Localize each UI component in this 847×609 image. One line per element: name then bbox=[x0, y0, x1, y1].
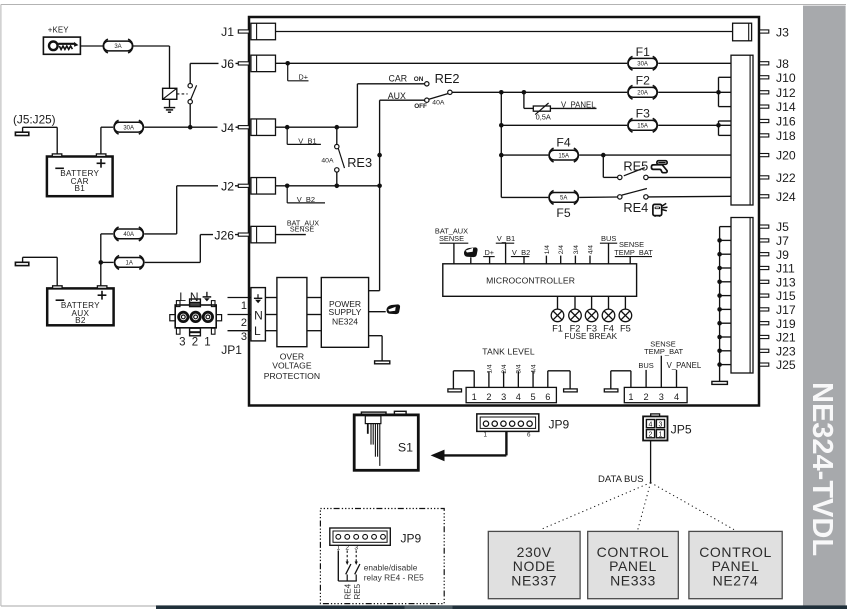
svg-text:NE274: NE274 bbox=[713, 573, 759, 589]
label FUSE BREAK bbox=[564, 332, 617, 341]
svg-text:FUSE BREAK: FUSE BREAK bbox=[564, 332, 617, 341]
svg-text:J21: J21 bbox=[776, 331, 796, 345]
label N bbox=[190, 290, 199, 304]
wire F4 to J20 bbox=[579, 153, 731, 158]
pin J14 bbox=[760, 100, 796, 114]
tank pin1 bent bbox=[448, 371, 474, 392]
bottom scrollbar thumb bbox=[405, 605, 453, 609]
pin J9 bbox=[717, 248, 789, 262]
svg-text:SENSE: SENSE bbox=[439, 234, 464, 243]
label J2 white-backed bbox=[221, 180, 234, 194]
AC inlet terminal block bbox=[251, 288, 266, 341]
svg-text:V_B2: V_B2 bbox=[297, 195, 315, 204]
relay dashed link bbox=[177, 93, 188, 95]
pin J16 bbox=[760, 115, 796, 129]
wire F4 to RE5 bbox=[603, 155, 617, 177]
svg-text:J26: J26 bbox=[214, 228, 234, 242]
label enable/disable bbox=[364, 563, 418, 573]
fuse 1A bbox=[115, 256, 144, 270]
fuse-break lamp F3 bbox=[585, 296, 598, 333]
svg-text:1: 1 bbox=[336, 544, 340, 551]
tank level connector bbox=[466, 387, 556, 402]
svg-text:J2: J2 bbox=[221, 180, 234, 194]
svg-text:+KEY: +KEY bbox=[48, 25, 69, 34]
wire F2 to bracket bbox=[658, 90, 731, 95]
pin J23 bbox=[717, 344, 796, 358]
svg-text:F1: F1 bbox=[552, 323, 563, 333]
fuse 3A bbox=[103, 39, 132, 53]
wire 1A to J26 bbox=[145, 227, 239, 262]
svg-text:F5: F5 bbox=[556, 206, 570, 220]
svg-text:JP5: JP5 bbox=[671, 423, 692, 437]
wire AUX bbox=[380, 99, 425, 101]
label JP9 bbox=[549, 418, 570, 432]
svg-text:V_B1: V_B1 bbox=[497, 234, 515, 243]
fuse 40A bbox=[114, 227, 143, 241]
svg-text:20A: 20A bbox=[637, 91, 648, 97]
label RE5 rotated bbox=[353, 583, 362, 599]
svg-text:MICROCONTROLLER: MICROCONTROLLER bbox=[486, 275, 575, 285]
pin J25 bbox=[717, 358, 796, 372]
label DATA BUS bbox=[598, 474, 644, 485]
over voltage protection box bbox=[277, 278, 307, 347]
svg-text:B1: B1 bbox=[74, 184, 85, 193]
pin J15 bbox=[717, 289, 796, 303]
svg-text:L: L bbox=[254, 324, 261, 338]
tank pin6 bent bbox=[548, 371, 577, 392]
svg-text:3/4: 3/4 bbox=[573, 245, 580, 254]
svg-text:J1: J1 bbox=[221, 25, 234, 39]
svg-text:J10: J10 bbox=[776, 71, 796, 85]
wire RE2 to F2 bbox=[452, 90, 627, 95]
relay RE1 coil bbox=[163, 88, 177, 99]
tank pin 3/4 bbox=[516, 364, 523, 387]
label RE4 bbox=[623, 200, 648, 215]
connector J26 bbox=[214, 226, 275, 243]
pin J21 bbox=[717, 331, 796, 345]
svg-text:5: 5 bbox=[531, 392, 536, 402]
power supply NE324 box bbox=[321, 278, 368, 348]
label 3 2 1 bbox=[179, 337, 211, 349]
svg-text:1: 1 bbox=[241, 300, 247, 312]
connector block J8-J24 bbox=[731, 55, 753, 205]
wire OVP to PSU bbox=[307, 298, 321, 331]
label JP9 detail bbox=[401, 532, 422, 546]
svg-text:30A: 30A bbox=[123, 125, 134, 131]
pin J17 bbox=[717, 303, 796, 317]
svg-text:2: 2 bbox=[644, 392, 649, 402]
svg-text:4/4: 4/4 bbox=[530, 364, 537, 373]
svg-text:J25: J25 bbox=[776, 358, 796, 372]
svg-text:J6: J6 bbox=[221, 57, 234, 71]
contact RE2 OFF bbox=[425, 98, 429, 102]
RE2 blade bbox=[429, 94, 448, 100]
svg-text:0,5A: 0,5A bbox=[536, 112, 551, 121]
svg-text:BUS: BUS bbox=[601, 234, 616, 243]
svg-text:30A: 30A bbox=[637, 62, 648, 68]
svg-text:J5: J5 bbox=[776, 220, 789, 234]
label BAT_AUX SENSE bbox=[287, 218, 319, 233]
svg-text:J12: J12 bbox=[776, 86, 796, 100]
uC tank pin 2/4 bbox=[558, 245, 565, 264]
wire 30A to J4 bbox=[144, 120, 238, 130]
svg-text:D+: D+ bbox=[485, 248, 494, 257]
wire PSU ground bbox=[369, 336, 383, 361]
4pin pin2 BUS bbox=[638, 361, 653, 387]
distribution rail F2-F5 bbox=[499, 92, 504, 197]
fridge icon RE4 bbox=[653, 203, 668, 216]
svg-text:4: 4 bbox=[516, 392, 521, 402]
pin J18 bbox=[760, 129, 796, 143]
fuse F3 bbox=[628, 106, 657, 132]
databus branch 1 bbox=[541, 483, 651, 530]
svg-text:enable/disable: enable/disable bbox=[364, 563, 418, 573]
tank pin 2/4 bbox=[501, 364, 508, 387]
svg-text:2/4: 2/4 bbox=[501, 364, 508, 373]
fuse F2 bbox=[628, 74, 657, 100]
connector JP9 bbox=[477, 414, 539, 438]
svg-text:3: 3 bbox=[501, 392, 506, 402]
microcontroller box bbox=[443, 264, 637, 297]
label J6 white-backed bbox=[221, 57, 234, 71]
label RE5 bbox=[623, 159, 648, 174]
fuse F5 bbox=[549, 191, 578, 220]
contact RE2 common bbox=[448, 90, 452, 94]
svg-text:J23: J23 bbox=[776, 344, 796, 358]
fuse-break lamp F5 bbox=[619, 296, 632, 333]
label ON bbox=[414, 76, 424, 83]
svg-text:SENSE: SENSE bbox=[290, 225, 315, 234]
connector J3 bbox=[733, 23, 789, 41]
svg-text:F3: F3 bbox=[636, 106, 650, 120]
wire J1 to J3 bbox=[276, 31, 733, 33]
fuse 0.5A V_PANEL bbox=[524, 92, 597, 121]
wire JP1 pin2 bbox=[228, 315, 251, 329]
JP9 pin1 wire bbox=[338, 551, 357, 582]
connector JP1 bbox=[170, 299, 222, 336]
svg-text:VOLTAGE: VOLTAGE bbox=[272, 361, 312, 371]
svg-text:2: 2 bbox=[241, 317, 247, 329]
svg-text:V_PANEL: V_PANEL bbox=[667, 361, 702, 370]
label RE2 bbox=[435, 71, 460, 86]
wire F1 to J8 bbox=[658, 62, 731, 64]
sidebar title NE324-TVDL bbox=[806, 382, 838, 556]
tank pin 1/4 bbox=[486, 364, 493, 387]
svg-text:5A: 5A bbox=[560, 196, 567, 202]
svg-text:1/4: 1/4 bbox=[544, 245, 551, 254]
4pin pin4 V_PANEL bbox=[667, 361, 702, 387]
uC pin SENSE TEMP_BAT bbox=[614, 240, 653, 264]
switch module S1 bbox=[354, 411, 418, 470]
label J4 white-backed bbox=[221, 121, 234, 135]
svg-text:1: 1 bbox=[484, 431, 488, 438]
svg-text:J14: J14 bbox=[776, 100, 796, 114]
wire coil to ground bbox=[169, 99, 171, 107]
wire fuse3A to relay coil bbox=[134, 46, 170, 88]
svg-text:15A: 15A bbox=[558, 153, 569, 159]
svg-text:1: 1 bbox=[472, 392, 477, 402]
svg-text:3: 3 bbox=[659, 392, 664, 402]
svg-text:S1: S1 bbox=[398, 440, 413, 454]
tank pin 4/4 bbox=[530, 364, 537, 387]
net label V_B1 bbox=[287, 127, 321, 145]
svg-text:J15: J15 bbox=[776, 289, 796, 303]
svg-text:NE337: NE337 bbox=[511, 573, 557, 589]
svg-text:15A: 15A bbox=[637, 124, 648, 130]
svg-text:3: 3 bbox=[179, 337, 185, 349]
svg-text:L: L bbox=[179, 290, 186, 304]
pin J22 bbox=[760, 171, 796, 185]
fuse F4 bbox=[549, 136, 578, 162]
label JP1 bbox=[221, 343, 242, 357]
label MICROCONTROLLER bbox=[486, 275, 575, 285]
svg-text:TEMP_BAT: TEMP_BAT bbox=[614, 248, 653, 257]
earth symbol above JP1 bbox=[203, 292, 212, 302]
uC pin V_B2 bbox=[511, 248, 530, 264]
svg-text:RE3: RE3 bbox=[347, 155, 372, 170]
uC pin V_B1 bbox=[496, 234, 515, 264]
svg-text:3/4: 3/4 bbox=[516, 364, 523, 373]
bus connector 4pin bbox=[624, 387, 687, 402]
svg-text:RE2: RE2 bbox=[435, 71, 460, 86]
JP9 switch RE5 bbox=[355, 551, 360, 582]
AUX rail riser bbox=[377, 100, 382, 291]
databus branch 2 bbox=[638, 483, 651, 530]
svg-text:40A: 40A bbox=[123, 232, 134, 238]
svg-text:J17: J17 bbox=[776, 303, 796, 317]
svg-text:V_PANEL: V_PANEL bbox=[561, 100, 596, 109]
svg-text:RE5: RE5 bbox=[353, 583, 362, 599]
svg-text:J19: J19 bbox=[776, 317, 796, 331]
fuse 30A bbox=[114, 120, 143, 134]
svg-text:F2: F2 bbox=[636, 74, 650, 88]
pin J20 bbox=[760, 149, 796, 163]
svg-text:(J5:J25): (J5:J25) bbox=[13, 112, 56, 126]
wire F5 to RE4 bbox=[579, 196, 617, 198]
pin J13 bbox=[717, 275, 796, 289]
battery car B1 bbox=[47, 154, 113, 196]
tag J5-J25 car bbox=[15, 127, 57, 154]
label AUX bbox=[388, 91, 406, 101]
wire B1 plus to fuse bbox=[101, 127, 113, 154]
svg-text:NE324-TVDL: NE324-TVDL bbox=[806, 382, 838, 556]
wire BAT_AUX_SENSE bbox=[276, 234, 306, 236]
svg-text:1/4: 1/4 bbox=[486, 364, 493, 373]
svg-text:TEMP_BAT: TEMP_BAT bbox=[644, 347, 683, 356]
relay RE3 bbox=[321, 127, 372, 186]
svg-text:V_B2: V_B2 bbox=[512, 248, 530, 257]
wire switch to J6 bbox=[190, 56, 238, 66]
label CAR bbox=[389, 74, 408, 84]
svg-text:PROTECTION: PROTECTION bbox=[264, 371, 320, 381]
uC tank pin 3/4 bbox=[573, 245, 580, 264]
key switch symbol bbox=[43, 37, 80, 54]
4pin pin1 bent bbox=[604, 371, 631, 392]
connector block J5-J25 bbox=[731, 218, 753, 374]
svg-text:4/4: 4/4 bbox=[587, 245, 594, 254]
pump icon at PSU bbox=[369, 304, 400, 314]
svg-text:AUX: AUX bbox=[388, 91, 406, 101]
svg-text:3: 3 bbox=[354, 544, 358, 551]
svg-text:JP1: JP1 bbox=[221, 343, 242, 357]
svg-text:J7: J7 bbox=[776, 234, 789, 248]
net label D+ bbox=[288, 63, 309, 81]
svg-text:1: 1 bbox=[628, 392, 633, 402]
wire CAR riser bbox=[356, 84, 358, 127]
wire 40A to J2 bbox=[144, 179, 238, 234]
svg-text:NE333: NE333 bbox=[610, 573, 656, 589]
wire CAR bbox=[357, 83, 424, 85]
wire J4 row bbox=[276, 125, 358, 130]
uC tank pin 4/4 bbox=[587, 245, 594, 264]
pin J7 bbox=[717, 234, 789, 248]
svg-text:OFF: OFF bbox=[414, 103, 427, 110]
svg-text:2: 2 bbox=[649, 431, 653, 438]
svg-text:1: 1 bbox=[204, 337, 210, 349]
fuse F1 bbox=[628, 45, 657, 70]
svg-text:J18: J18 bbox=[776, 129, 796, 143]
bracket J16-J18 bbox=[719, 121, 732, 135]
label OFF bbox=[414, 103, 427, 110]
svg-text:J8: J8 bbox=[776, 57, 789, 71]
tag J5-J25 aux bbox=[15, 257, 57, 285]
right gray sidebar bbox=[803, 6, 846, 609]
wire RE5 to J22 bbox=[648, 176, 731, 178]
wire JP1 pin1 bbox=[228, 298, 251, 312]
svg-text:J16: J16 bbox=[776, 115, 796, 129]
svg-text:2: 2 bbox=[345, 544, 349, 551]
relay RE4 contacts bbox=[618, 189, 649, 200]
connector J6 bbox=[221, 55, 275, 72]
label POWER SUPPLY NE324 bbox=[329, 299, 362, 327]
svg-text:JP9: JP9 bbox=[549, 418, 570, 432]
contact RE2 ON bbox=[425, 82, 429, 86]
label TANK LEVEL bbox=[482, 347, 535, 357]
battery aux B2 bbox=[47, 286, 113, 326]
svg-text:40A: 40A bbox=[432, 99, 445, 106]
label JP5 bbox=[671, 423, 692, 437]
main unit box NE324 bbox=[249, 17, 759, 406]
svg-text:F4: F4 bbox=[556, 136, 570, 150]
wire F3 to bracket bbox=[658, 123, 731, 128]
svg-text:1A: 1A bbox=[126, 261, 133, 267]
key relay switch contact bbox=[188, 63, 197, 127]
connector J2 bbox=[221, 178, 275, 195]
label 40A RE2 bbox=[432, 99, 445, 106]
svg-text:BUS: BUS bbox=[638, 361, 653, 370]
fuse-break lamp F4 bbox=[602, 296, 615, 333]
pin J10 bbox=[760, 71, 796, 85]
wire JP5 down bbox=[650, 441, 652, 483]
wire rail to F3 bbox=[501, 124, 627, 126]
label relay RE4 - RE5 bbox=[364, 573, 424, 583]
svg-text:B2: B2 bbox=[75, 316, 86, 325]
label RE4 rotated bbox=[343, 583, 352, 599]
wire 1A left bbox=[101, 261, 114, 263]
svg-text:JP9: JP9 bbox=[401, 532, 422, 546]
svg-text:V_B1: V_B1 bbox=[298, 136, 316, 145]
svg-text:N: N bbox=[190, 290, 199, 304]
uC tank pin 1/4 bbox=[544, 245, 551, 264]
uC pin BUS bbox=[600, 234, 617, 264]
pin J19 bbox=[717, 317, 796, 331]
svg-text:J24: J24 bbox=[776, 190, 796, 204]
bottom scrollbar track bbox=[156, 605, 847, 609]
svg-text:RE4: RE4 bbox=[343, 583, 352, 599]
label (J5:J25) bbox=[13, 112, 56, 126]
svg-text:F5: F5 bbox=[620, 323, 631, 333]
connector JP5 bbox=[643, 414, 667, 441]
svg-text:40A: 40A bbox=[321, 158, 334, 165]
module 230V NODE NE337 bbox=[488, 531, 580, 598]
svg-text:D+: D+ bbox=[299, 72, 308, 81]
pin J12 bbox=[760, 86, 796, 100]
label OVER VOLTAGE PROTECTION bbox=[264, 351, 320, 380]
wire rail to F4 bbox=[501, 154, 548, 156]
connector J1 bbox=[221, 23, 275, 40]
4pin pin3 SENSE TEMP_BAT bbox=[644, 340, 683, 388]
svg-text:TANK LEVEL: TANK LEVEL bbox=[482, 347, 535, 357]
svg-text:J11: J11 bbox=[776, 262, 795, 276]
svg-text:3: 3 bbox=[241, 331, 247, 343]
arrow JP9 to S1 bbox=[431, 432, 507, 461]
svg-text:J13: J13 bbox=[776, 275, 796, 289]
net label V_B2 bbox=[287, 186, 325, 204]
svg-text:N: N bbox=[254, 309, 263, 323]
svg-text:J20: J20 bbox=[776, 149, 796, 163]
svg-text:J9: J9 bbox=[776, 248, 789, 262]
label +KEY bbox=[48, 25, 69, 34]
label J26 white-backed bbox=[214, 228, 234, 242]
svg-text:DATA BUS: DATA BUS bbox=[598, 474, 644, 485]
pump icon uC bbox=[464, 247, 478, 263]
wire key to fuse bbox=[80, 45, 102, 47]
module CONTROL PANEL NE274 bbox=[689, 531, 782, 598]
faucet icon RE5 bbox=[651, 161, 667, 173]
wire AC to OVP bbox=[265, 298, 277, 331]
pin J24 bbox=[760, 190, 796, 204]
svg-text:CAR: CAR bbox=[389, 74, 408, 84]
module CONTROL PANEL NE333 bbox=[588, 531, 679, 598]
svg-text:J4: J4 bbox=[221, 121, 234, 135]
svg-text:4: 4 bbox=[674, 392, 679, 402]
svg-text:2: 2 bbox=[192, 337, 198, 349]
svg-text:ON: ON bbox=[414, 76, 424, 83]
svg-text:2: 2 bbox=[486, 392, 491, 402]
svg-text:RE4: RE4 bbox=[623, 200, 648, 215]
svg-text:NE324: NE324 bbox=[332, 317, 358, 327]
pin J11 bbox=[717, 262, 795, 276]
wire RE4 to J24 bbox=[648, 195, 731, 198]
uC pin D+ bbox=[483, 248, 495, 264]
pin J8 bbox=[760, 57, 789, 71]
svg-text:J3: J3 bbox=[776, 25, 789, 39]
wire rail to F5 bbox=[501, 196, 548, 198]
wire JP1 pin3 bbox=[228, 331, 251, 343]
svg-text:RE5: RE5 bbox=[623, 159, 648, 174]
chassis bar J5-J25 bbox=[712, 381, 728, 384]
wire PSU to AUX rail bbox=[369, 290, 380, 292]
svg-text:1: 1 bbox=[659, 431, 663, 438]
wire B2 plus up bbox=[99, 234, 104, 286]
ground bbox=[164, 108, 175, 113]
ground rail J5-J25 bbox=[719, 227, 721, 382]
svg-text:6: 6 bbox=[527, 431, 531, 438]
databus branch 3 bbox=[651, 483, 734, 530]
svg-text:2/4: 2/4 bbox=[558, 245, 565, 254]
svg-text:3: 3 bbox=[659, 421, 663, 428]
uC pin BAT_AUX SENSE bbox=[435, 227, 468, 264]
